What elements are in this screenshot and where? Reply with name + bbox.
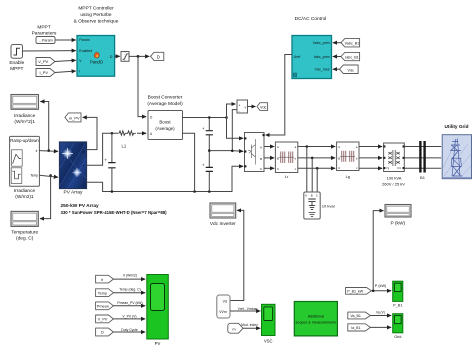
utility grid block — [442, 135, 471, 179]
display block Vdc Inverter — [210, 203, 236, 227]
svg-text:B1: B1 — [420, 175, 426, 180]
junction shunt taps — [306, 145, 319, 169]
svg-text:L1: L1 — [122, 144, 127, 149]
grid inductor Lg — [337, 142, 359, 179]
svg-text:scopes & measurements: scopes & measurements — [296, 321, 337, 325]
scope Grid — [393, 314, 403, 339]
svg-text:VVm: VVm — [219, 310, 227, 314]
svg-text:VSC: VSC — [264, 339, 272, 344]
junction neutral node — [231, 150, 234, 153]
from tag Vabc_B1 — [341, 39, 360, 47]
wire shunt drops — [307, 147, 317, 193]
svg-text:Va_B1: Va_B1 — [350, 314, 361, 318]
wire Vabc_B1 to controller — [333, 42, 341, 44]
junction P node — [372, 290, 375, 293]
wire PV plus through L1 to boost A — [87, 133, 147, 165]
svg-text:Pmean_PV (kW): Pmean_PV (kW) — [117, 301, 142, 305]
svg-text:Temperature: Temperature — [11, 230, 38, 236]
display block Irradiance — [11, 95, 39, 126]
wire Param to MPPT — [55, 39, 76, 41]
svg-text:MPPT: MPPT — [10, 66, 23, 72]
svg-text:D1: D1 — [398, 166, 402, 170]
wire Ir to PV scope — [113, 278, 145, 280]
from tag V_PV — [36, 58, 55, 66]
inductor L1 — [119, 131, 136, 149]
label MPPT Controller title — [74, 6, 119, 25]
PV array block — [60, 142, 87, 195]
svg-text:Ir (W/m2): Ir (W/m2) — [123, 274, 137, 278]
from tag Iabc_B1 — [341, 52, 360, 60]
svg-text:m: m — [232, 326, 235, 331]
svg-text:Enable: Enable — [9, 60, 24, 66]
svg-text:Temp (deg. C): Temp (deg. C) — [119, 288, 140, 292]
svg-text:+: + — [83, 164, 85, 168]
svg-text:& Observe technique: & Observe technique — [74, 19, 119, 25]
junction midpoint node — [208, 149, 211, 152]
wire Lr c to Lg — [298, 167, 335, 169]
junction bottom rail nodes — [111, 190, 211, 193]
wire I_PV to MPPT — [55, 71, 76, 73]
svg-text:Va (V): Va (V) — [376, 311, 385, 315]
svg-text:Vdc: Vdc — [348, 68, 355, 72]
scope PV — [147, 275, 169, 347]
svg-text:C: C — [338, 166, 340, 170]
wire inverter A to Lr — [264, 146, 274, 148]
from tag Ia_B1 — [348, 324, 371, 331]
svg-text:Param: Param — [79, 38, 89, 42]
svg-text:330 * SunPower SPR-415E-WHT-D: 330 * SunPower SPR-415E-WHT-D (Nser=7 Np… — [61, 210, 168, 215]
svg-text:B: B — [311, 194, 313, 198]
wire Enable to MPPT — [23, 50, 76, 52]
wire Ia_B1 to Grid scope — [370, 326, 391, 328]
wire ramp Temp to PV array — [39, 175, 58, 177]
from tag Vdc input — [340, 65, 359, 74]
wire inverter B to Lr — [264, 157, 274, 159]
wire MPPT D to saturation — [115, 55, 120, 57]
svg-text:PandO: PandO — [90, 60, 104, 65]
wire V_PV to MPPT — [55, 60, 76, 61]
svg-text:Vabc_prim: Vabc_prim — [313, 41, 330, 45]
from tag Va_B1 — [348, 312, 371, 319]
wire m to VSC scope — [243, 327, 260, 329]
capacitor C1 input — [104, 133, 115, 191]
wire top rail to Vm plus — [227, 104, 236, 118]
svg-text:DC/AC Control: DC/AC Control — [295, 16, 327, 22]
wire P_B1_kW to scope — [371, 290, 391, 292]
svg-text:V_PV (V): V_PV (V) — [122, 314, 136, 318]
junction top rail nodes — [208, 116, 228, 119]
svg-text:m_PV: m_PV — [69, 116, 80, 121]
filter choke Lr — [275, 142, 297, 179]
svg-text:Ramp-up/down: Ramp-up/down — [10, 138, 39, 143]
wire duty cycle to boost D input — [138, 56, 146, 116]
wire PV m to m_PV — [83, 117, 97, 149]
wire Lr a to Lg — [298, 146, 335, 148]
wire transformer to grid rails — [404, 147, 441, 169]
from tag P_B1_kW — [346, 288, 372, 295]
wire Va_B1 to Grid scope — [370, 315, 391, 317]
from tag Ir bottom — [96, 275, 114, 283]
wire P_B1_kW tap up to display — [373, 211, 383, 291]
wire boost minus down to bottom rail — [183, 133, 195, 191]
svg-text:Ia_B1: Ia_B1 — [351, 326, 360, 330]
svg-text:PV: PV — [155, 341, 161, 346]
svg-text:Boost: Boost — [159, 120, 171, 125]
svg-text:250-kW PV Array: 250-kW PV Array — [61, 203, 100, 209]
from tag V_PV bottom — [96, 315, 114, 323]
from tag Temp bottom — [96, 289, 114, 297]
label Boost Converter title — [147, 95, 183, 108]
svg-text:Irradiance: Irradiance — [14, 113, 36, 119]
capacitor C2 dc link top — [202, 118, 213, 151]
svg-text:Vdc: Vdc — [260, 105, 267, 109]
svg-text:100 kVA: 100 kVA — [387, 176, 402, 181]
wire Vdc to controller — [333, 68, 340, 70]
wire Vd output up to Vdc Inverter display — [230, 210, 244, 300]
svg-text:Irradiance: Irradiance — [14, 188, 36, 194]
svg-text:A: A — [305, 194, 307, 198]
svg-text:V_PV: V_PV — [38, 59, 48, 64]
voltage measurement Vm — [237, 100, 248, 113]
constant block Param — [36, 37, 55, 44]
wire D to PV scope — [113, 331, 145, 333]
junction PV plus node — [111, 132, 114, 135]
svg-text:Uref: Uref — [294, 55, 301, 59]
wire Ir tap to Irradiance display — [40, 102, 48, 151]
svg-text:I_PV: I_PV — [40, 70, 49, 75]
svg-text:(W/m^2)1: (W/m^2)1 — [14, 119, 35, 125]
wire Temp to PV scope — [113, 292, 145, 294]
wire top rail to inverter plus — [227, 118, 244, 139]
goto tag m_PV — [65, 113, 81, 122]
wire inverter C to Lr — [264, 167, 274, 169]
saturation block — [121, 52, 129, 62]
svg-text:V_PV: V_PV — [98, 318, 108, 322]
svg-text:using Perturbe: using Perturbe — [80, 12, 112, 18]
goto tag D — [151, 52, 164, 60]
wire ramp Ir to PV array — [39, 150, 58, 153]
wire Vref-Vmean to VSC scope — [230, 310, 260, 312]
junction Temp node — [49, 174, 52, 177]
wire saturation to goto D — [129, 55, 149, 57]
svg-text:B: B — [260, 157, 262, 161]
svg-text:P_B1_kW: P_B1_kW — [347, 290, 364, 294]
inverter bridge U3 — [244, 133, 265, 172]
shunt capacitor bank 10 kvar — [304, 192, 336, 219]
wire neutral rail to inverter — [209, 150, 243, 153]
subsystem DC/AC Control U2 — [292, 36, 332, 79]
label 250-kW PV Array — [61, 203, 168, 215]
svg-text:+: + — [104, 158, 107, 163]
svg-text:Boost Converter: Boost Converter — [148, 95, 183, 101]
svg-text:m: m — [82, 150, 85, 154]
svg-text:...Param: ...Param — [39, 39, 53, 43]
svg-text:P (kW): P (kW) — [391, 221, 406, 227]
wire Lr b to Lg — [298, 157, 335, 159]
svg-text:Vdc Inverter: Vdc Inverter — [210, 221, 236, 227]
svg-text:Vabc_B1: Vabc_B1 — [345, 42, 360, 46]
wire Uref to inverter gate — [266, 55, 293, 136]
wire V_PV to PV scope — [113, 318, 145, 320]
svg-text:Parameters: Parameters — [32, 31, 57, 37]
svg-text:Enabled: Enabled — [79, 49, 92, 53]
svg-text:Duty Cycle: Duty Cycle — [121, 328, 138, 332]
scope VSC — [262, 304, 276, 343]
svg-text:Temp: Temp — [30, 173, 38, 177]
svg-text:(Average): (Average) — [155, 126, 175, 131]
svg-text:P_B1: P_B1 — [393, 304, 402, 308]
from tag I_PV — [36, 69, 55, 77]
svg-text:(W/m2)1: (W/m2)1 — [15, 194, 34, 200]
svg-text:Vdc_mes: Vdc_mes — [315, 68, 330, 72]
wire Temp tap to Temperature display — [40, 175, 51, 218]
svg-text:(deg. C): (deg. C) — [16, 236, 34, 242]
goto tag Vdc — [257, 103, 268, 111]
svg-text:Utility Grid: Utility Grid — [445, 124, 469, 129]
svg-text:D: D — [101, 331, 104, 335]
svg-text:Vref - Vmean: Vref - Vmean — [238, 307, 258, 311]
subsystem Boost (Average) — [148, 111, 183, 140]
svg-text:I: I — [79, 70, 80, 74]
selector block Vd — [217, 295, 230, 318]
svg-text:Lg: Lg — [346, 174, 350, 179]
svg-text:C: C — [277, 167, 279, 171]
wire Iabc_B1 to controller — [333, 56, 341, 58]
wire Lg to transformer — [359, 146, 382, 148]
junction Ir node — [47, 149, 50, 152]
svg-text:Iabc_prim: Iabc_prim — [314, 55, 330, 59]
capacitor C3 dc link bottom — [202, 151, 213, 192]
svg-text:260V / 25 kV: 260V / 25 kV — [382, 182, 405, 187]
svg-text:MPPT: MPPT — [37, 25, 50, 31]
svg-text:D: D — [157, 55, 160, 60]
svg-text:Additional: Additional — [308, 315, 324, 319]
svg-text:Iabc_B1: Iabc_B1 — [345, 56, 359, 60]
from tag D bottom — [96, 328, 114, 336]
measurement B1 bars — [419, 141, 426, 180]
subsystem MPPT Controller U1 — [77, 36, 115, 77]
subsystem Ramp-up/down — [10, 136, 40, 199]
svg-text:PV Array: PV Array — [64, 189, 84, 195]
svg-text:Mod. Index: Mod. Index — [241, 323, 258, 327]
transformer T1 — [382, 143, 405, 187]
display block P kW — [385, 205, 411, 227]
svg-text:A: A — [277, 145, 279, 149]
svg-text:A: A — [338, 145, 340, 149]
svg-text:10 kvar: 10 kvar — [322, 204, 336, 209]
svg-text:A: A — [260, 145, 262, 149]
label MPPT Parameters — [32, 25, 57, 37]
wire PV minus to bottom rail — [87, 166, 244, 191]
svg-text:B: B — [277, 156, 279, 160]
step source Enable MPPT — [9, 45, 24, 73]
from tag m — [228, 323, 243, 333]
svg-text:Yg: Yg — [386, 166, 390, 170]
junction duty cycle node — [137, 55, 140, 58]
svg-text:Vd: Vd — [223, 300, 227, 304]
svg-text:Grid: Grid — [394, 335, 401, 339]
svg-text:C: C — [316, 194, 318, 198]
svg-text:P (kW): P (kW) — [375, 284, 387, 288]
scope P_B1 — [393, 281, 403, 307]
svg-text:Pmean: Pmean — [97, 305, 109, 309]
wire Vm minus to neutral — [232, 110, 237, 150]
wire boost plus to DC top rail — [183, 117, 227, 119]
subsystem Additional scopes and measurements — [294, 302, 337, 336]
svg-text:v: v — [244, 105, 246, 109]
from tag Pmean — [96, 302, 114, 310]
wire Pmean to PV scope — [113, 305, 145, 307]
wire Vm to Vdc goto — [248, 106, 256, 108]
svg-text:(Average Model): (Average Model) — [147, 101, 183, 107]
svg-text:B: B — [338, 156, 340, 160]
svg-text:MPPT Controller: MPPT Controller — [78, 6, 114, 12]
display block Temperature — [11, 211, 38, 241]
svg-text:Temp: Temp — [98, 291, 107, 295]
